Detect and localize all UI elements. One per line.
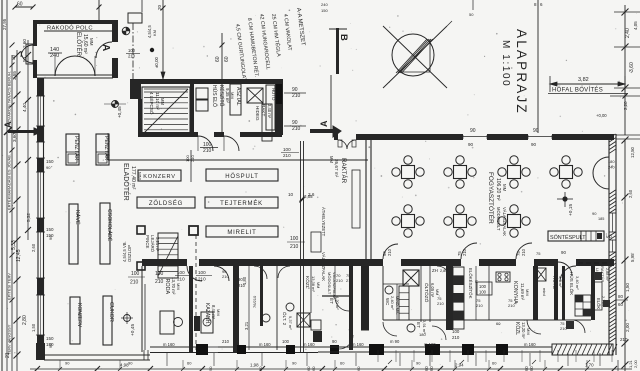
svg-text:210: 210 — [476, 303, 483, 308]
svg-text:60: 60 — [215, 56, 221, 62]
svg-text:10: 10 — [288, 192, 294, 197]
svg-text:80: 80 — [618, 294, 624, 299]
svg-text:210: 210 — [462, 248, 467, 256]
svg-text:210: 210 — [452, 335, 460, 340]
svg-text:ELŐTÉR: ELŐTÉR — [75, 32, 82, 57]
svg-text:150: 150 — [46, 336, 54, 341]
svg-text:VÁLASZFALAK: VÁLASZFALAK — [502, 207, 507, 236]
svg-text:ZÖLDSÉG: ZÖLDSÉG — [149, 200, 183, 207]
svg-text:2,40 m²: 2,40 m² — [390, 296, 395, 310]
svg-text:90: 90 — [48, 343, 53, 348]
svg-text:90: 90 — [128, 361, 133, 366]
svg-text:100: 100 — [131, 271, 140, 277]
svg-text:210: 210 — [177, 277, 185, 282]
svg-text:240: 240 — [321, 2, 328, 7]
svg-text:210: 210 — [198, 277, 206, 282]
svg-text:MIRELIT: MIRELIT — [227, 230, 256, 236]
svg-text:B: B — [338, 34, 349, 41]
svg-text:210: 210 — [336, 278, 343, 283]
svg-text:MM: MM — [502, 184, 507, 192]
svg-text:4 LÉPCSŐ: 4 LÉPCSŐ — [149, 92, 155, 115]
svg-text:ÁTHELYEZETT: ÁTHELYEZETT — [321, 207, 326, 237]
svg-text:HÖSPULT: HÖSPULT — [225, 173, 259, 180]
svg-text:210: 210 — [203, 148, 212, 154]
svg-text:210: 210 — [620, 337, 628, 342]
svg-text:KM: KM — [152, 30, 157, 36]
svg-text:3,82: 3,82 — [578, 77, 589, 83]
svg-text:ÖLTÖZŐ: ÖLTÖZŐ — [423, 283, 430, 303]
svg-text:MM: MM — [176, 283, 181, 290]
svg-text:KAZÁNH.: KAZÁNH. — [204, 303, 211, 325]
svg-text:90: 90 — [48, 235, 53, 240]
svg-text:60: 60 — [529, 366, 534, 371]
svg-text:ET: ET — [416, 322, 421, 328]
svg-text:100: 100 — [290, 236, 299, 242]
svg-text:13,20 m²: 13,20 m² — [521, 322, 526, 339]
svg-text:ÉPÍTÉSI TERV: ÉPÍTÉSI TERV — [7, 273, 12, 300]
svg-text:+0,45: +0,45 — [130, 324, 136, 336]
svg-text:KÁVÉ: KÁVÉ — [74, 210, 81, 225]
svg-text:ELŐKÉSZÍTŐK: ELŐKÉSZÍTŐK — [468, 268, 473, 299]
svg-text:m: m — [592, 287, 595, 291]
svg-text:1,98: 1,98 — [250, 363, 259, 368]
svg-text:210: 210 — [387, 248, 392, 256]
svg-text:ASZTAL: ASZTAL — [235, 87, 241, 106]
svg-text:3,21: 3,21 — [244, 321, 249, 330]
svg-text:177,40 m²: 177,40 m² — [130, 166, 136, 190]
svg-text:5,32: 5,32 — [26, 213, 31, 222]
svg-text:27,95: 27,95 — [2, 18, 7, 30]
svg-text:100: 100 — [282, 339, 290, 344]
svg-text:11,69 m²: 11,69 m² — [520, 283, 525, 301]
svg-text:KONZERV: KONZERV — [143, 174, 176, 180]
svg-text:90: 90 — [533, 128, 539, 134]
svg-text:3,60: 3,60 — [12, 133, 17, 142]
svg-text:240: 240 — [608, 165, 615, 170]
svg-text:13,38 m²: 13,38 m² — [311, 276, 316, 292]
svg-text:HŐFAL BŐVÍTÉS: HŐFAL BŐVÍTÉS — [552, 87, 603, 94]
svg-text:m 160: m 160 — [303, 342, 315, 347]
svg-text:WC: WC — [317, 332, 322, 339]
svg-text:ET: ET — [329, 298, 334, 304]
svg-text:210: 210 — [283, 153, 291, 158]
svg-text:2,80: 2,80 — [22, 315, 28, 325]
svg-text:60: 60 — [17, 2, 23, 8]
svg-text:90: 90 — [470, 128, 476, 134]
svg-text:RAKTÁR: RAKTÁR — [340, 158, 347, 184]
svg-text:ÉRTÉKMARADÁSI ÉS JÓVÁB.: ÉRTÉKMARADÁSI ÉS JÓVÁB. — [7, 154, 12, 210]
svg-text:MM: MM — [89, 38, 94, 46]
svg-text:PÉNZTÁR: PÉNZTÁR — [103, 136, 110, 160]
svg-text:150: 150 — [46, 227, 54, 232]
svg-text:LEJÁRÓ: LEJÁRÓ — [150, 235, 155, 253]
svg-text:2,00: 2,00 — [625, 323, 630, 332]
svg-text:3,40 m²: 3,40 m² — [267, 104, 272, 119]
svg-text:ZH: ZH — [432, 268, 438, 273]
svg-text:2,94: 2,94 — [455, 363, 464, 368]
svg-text:106,20 m²: 106,20 m² — [495, 178, 501, 201]
svg-text:MIND. MK.: MIND. MK. — [395, 296, 399, 315]
svg-text:MM: MM — [329, 156, 334, 163]
svg-text:9,37 m²: 9,37 m² — [288, 316, 293, 330]
svg-text:2,60: 2,60 — [628, 189, 633, 198]
svg-text:90: 90 — [416, 361, 421, 366]
svg-text:90: 90 — [292, 361, 297, 366]
svg-text:MM: MM — [230, 92, 235, 99]
svg-text:12,45: 12,45 — [16, 249, 22, 262]
svg-text:210: 210 — [128, 54, 136, 59]
svg-text:IRODA: IRODA — [164, 277, 170, 294]
svg-text:4,98: 4,98 — [120, 363, 129, 368]
svg-text:MM: MM — [435, 289, 439, 295]
svg-text:2,88 m²: 2,88 m² — [605, 268, 609, 282]
svg-text:3,60: 3,60 — [629, 62, 635, 72]
svg-text:ÖLT. 2: ÖLT. 2 — [282, 312, 288, 326]
svg-text:210: 210 — [508, 303, 515, 308]
svg-text:6,05 m²: 6,05 m² — [430, 283, 435, 298]
svg-text:+0,45: +0,45 — [117, 106, 122, 118]
svg-text:MM: MM — [216, 309, 221, 316]
svg-text:210: 210 — [155, 279, 164, 285]
svg-text:KONYHA: KONYHA — [512, 281, 518, 304]
svg-text:A: A — [319, 120, 329, 127]
svg-text:2,20: 2,20 — [623, 101, 628, 110]
svg-text:MM: MM — [525, 289, 530, 296]
svg-text:PÉNZTÁR: PÉNZTÁR — [73, 136, 80, 160]
svg-text:150: 150 — [46, 159, 54, 164]
svg-text:SÖNTÉSPULT: SÖNTÉSPULT — [550, 234, 586, 241]
svg-text:210: 210 — [222, 274, 229, 279]
svg-text:100: 100 — [155, 271, 164, 277]
svg-text:CSOKOLÁDÉ: CSOKOLÁDÉ — [106, 209, 113, 242]
svg-text:ELŐK: ELŐK — [596, 298, 601, 309]
svg-text:60: 60 — [496, 321, 501, 326]
svg-text:HIDEG: HIDEG — [255, 106, 260, 121]
svg-text:11,10 m²: 11,10 m² — [155, 92, 160, 110]
svg-text:90: 90 — [592, 211, 597, 216]
svg-text:60: 60 — [492, 361, 497, 366]
svg-text:210: 210 — [521, 248, 526, 256]
svg-text:60: 60 — [618, 302, 624, 307]
svg-text:5,33: 5,33 — [11, 240, 17, 250]
svg-text:m 160: m 160 — [424, 342, 436, 347]
svg-text:12,50: 12,50 — [630, 146, 635, 158]
svg-text:150: 150 — [321, 8, 328, 13]
svg-text:3,65: 3,65 — [304, 194, 313, 199]
svg-text:100: 100 — [177, 270, 185, 275]
svg-text:5,21 m²: 5,21 m² — [155, 237, 160, 252]
svg-text:90: 90 — [561, 250, 566, 255]
svg-text:5,95: 5,95 — [630, 253, 635, 262]
svg-text:4,20 m²: 4,20 m² — [335, 296, 340, 310]
svg-text:90: 90 — [65, 361, 70, 366]
svg-text:±0,00: ±0,00 — [154, 56, 159, 68]
svg-text:ALAPRAJZ: ALAPRAJZ — [514, 29, 529, 115]
svg-text:m 160: m 160 — [259, 342, 271, 347]
svg-text:13,70 m²: 13,70 m² — [171, 277, 176, 295]
svg-text:m 160: m 160 — [352, 342, 364, 347]
svg-text:210: 210 — [290, 244, 299, 250]
svg-text:210: 210 — [130, 280, 139, 286]
svg-text:60: 60 — [429, 366, 434, 371]
svg-text:100: 100 — [283, 147, 291, 152]
svg-text:m 160: m 160 — [163, 342, 175, 347]
svg-text:60: 60 — [258, 366, 263, 371]
svg-text:60: 60 — [311, 366, 316, 371]
svg-text:WC: WC — [385, 298, 390, 305]
svg-text:+0,00: +0,00 — [596, 113, 607, 118]
svg-text:21: 21 — [5, 352, 11, 358]
svg-text:210: 210 — [222, 339, 230, 344]
svg-text:90: 90 — [238, 277, 243, 282]
svg-text:100: 100 — [479, 290, 487, 295]
svg-text:90: 90 — [208, 366, 213, 371]
svg-text:185: 185 — [598, 217, 604, 221]
svg-text:90: 90 — [46, 165, 51, 170]
svg-text:90: 90 — [531, 142, 537, 147]
svg-text:2,00: 2,00 — [633, 359, 638, 368]
svg-text:KÖZL: KÖZL — [304, 276, 311, 289]
svg-text:1,70: 1,70 — [585, 363, 594, 368]
svg-text:m 160: m 160 — [524, 342, 536, 347]
svg-text:60: 60 — [187, 361, 192, 366]
svg-text:240: 240 — [50, 53, 59, 59]
svg-text:60: 60 — [224, 56, 230, 62]
svg-text:2,40: 2,40 — [625, 28, 631, 38]
svg-text:210: 210 — [560, 326, 567, 331]
svg-text:60: 60 — [356, 366, 361, 371]
svg-text:mird: mird — [542, 288, 547, 296]
svg-text:1,50: 1,50 — [31, 323, 36, 332]
svg-text:OSZLOP: OSZLOP — [127, 245, 132, 262]
svg-text:180: 180 — [608, 159, 615, 164]
svg-text:TEJTERMÉK: TEJTERMÉK — [220, 200, 263, 207]
svg-text:76/210: 76/210 — [252, 295, 257, 308]
svg-text:210: 210 — [292, 93, 301, 99]
svg-text:3,55: 3,55 — [12, 71, 17, 80]
svg-text:M 1:100: M 1:100 — [500, 40, 511, 87]
svg-text:ELADÓTÉR: ELADÓTÉR — [122, 163, 131, 201]
svg-text:1,50: 1,50 — [625, 283, 630, 292]
svg-text:FOGYASZTÓTÉR: FOGYASZTÓTÉR — [487, 172, 496, 224]
svg-text:TERV JÁNOSSY: TERV JÁNOSSY — [7, 324, 12, 355]
svg-text:90: 90 — [468, 142, 474, 147]
svg-text:100: 100 — [479, 284, 487, 289]
svg-text:180: 180 — [419, 332, 426, 337]
svg-text:210: 210 — [292, 126, 301, 132]
svg-text:KÉSZÍTŐ: KÉSZÍTŐ — [218, 85, 225, 107]
svg-text:15,60 m²: 15,60 m² — [82, 34, 88, 54]
svg-text:90: 90 — [332, 339, 337, 344]
svg-text:50: 50 — [469, 12, 474, 17]
svg-text:210: 210 — [437, 301, 444, 306]
svg-text:4,05: 4,05 — [633, 21, 638, 30]
svg-text:9,35 m²: 9,35 m² — [225, 88, 230, 103]
svg-text:1,21: 1,21 — [628, 359, 633, 368]
svg-text:PINCE: PINCE — [145, 235, 150, 248]
svg-text:4,40: 4,40 — [22, 103, 27, 112]
svg-text:CUKOR: CUKOR — [108, 302, 114, 322]
svg-text:m 90: m 90 — [390, 339, 400, 344]
svg-text:MÓDOSULT: MÓDOSULT — [496, 207, 501, 231]
svg-text:RAKODÓ POLC: RAKODÓ POLC — [47, 25, 93, 32]
svg-text:100: 100 — [452, 329, 460, 334]
svg-text:100: 100 — [198, 270, 206, 275]
svg-text:210: 210 — [238, 283, 246, 288]
svg-text:MM: MM — [316, 282, 320, 288]
svg-text:3,40 m²: 3,40 m² — [575, 276, 580, 290]
svg-text:2,60: 2,60 — [31, 243, 36, 252]
svg-text:60: 60 — [340, 361, 345, 366]
svg-text:100: 100 — [128, 48, 136, 53]
svg-text:50: 50 — [11, 54, 16, 60]
svg-text:KONZERV: KONZERV — [76, 303, 82, 328]
svg-text:MÓDOSULT: MÓDOSULT — [327, 272, 332, 295]
svg-text:MM: MM — [160, 98, 165, 105]
svg-text:KÖZL: KÖZL — [514, 322, 521, 335]
svg-text:RAKT.: RAKT. — [261, 104, 266, 117]
svg-text:FŐVÁROSI TANÁCS BERUH.: FŐVÁROSI TANÁCS BERUH. — [7, 71, 12, 125]
svg-text:75: 75 — [536, 251, 541, 256]
svg-text:VÁLASZFALAK: VÁLASZFALAK — [321, 252, 326, 281]
svg-text:HÚS ELŐ: HÚS ELŐ — [211, 85, 218, 107]
svg-text:A: A — [100, 44, 111, 51]
svg-text:+0,15: +0,15 — [568, 204, 574, 216]
